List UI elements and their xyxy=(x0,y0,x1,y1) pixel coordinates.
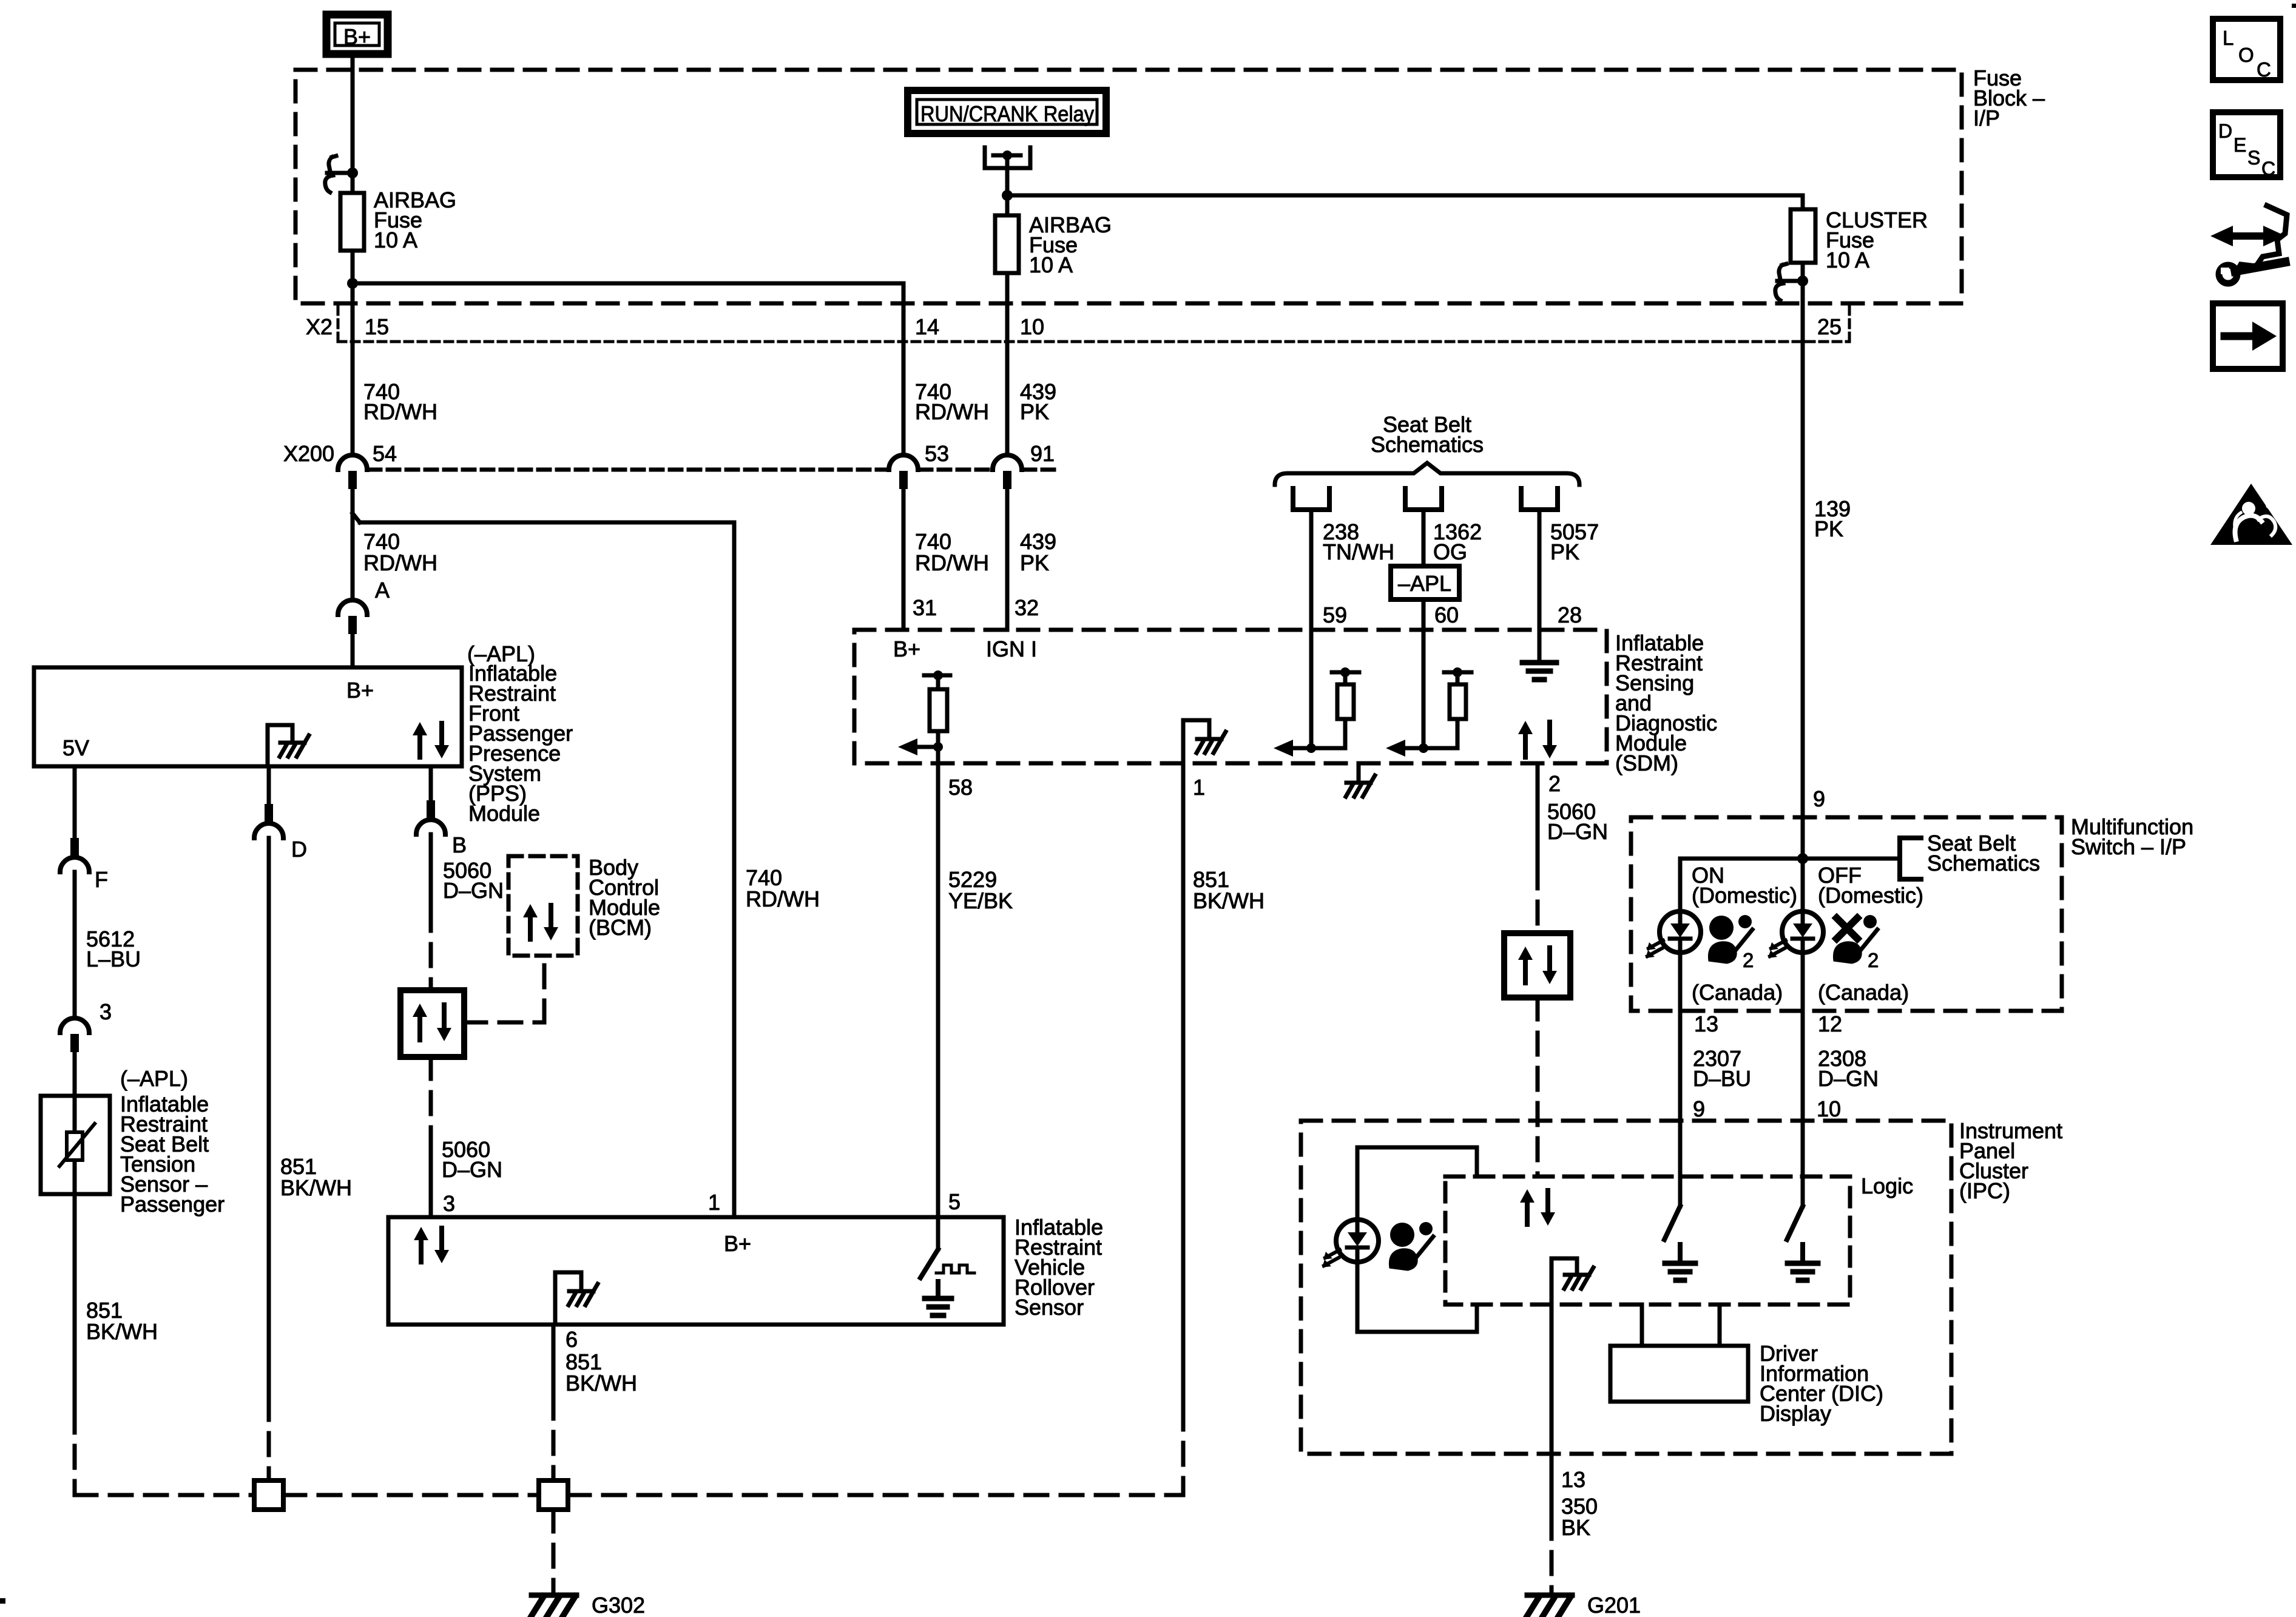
svg-text:B: B xyxy=(452,832,467,857)
svg-text:(–APL): (–APL) xyxy=(120,1066,188,1091)
svg-text:54: 54 xyxy=(373,441,397,466)
wire X200-53 to SDM pin 31 xyxy=(902,489,906,630)
wire PPS 5V to pin F xyxy=(73,766,77,838)
icon warning triangle xyxy=(2210,484,2292,545)
svg-text:1: 1 xyxy=(708,1190,720,1215)
ground IEC IPC 9 xyxy=(1678,1244,1683,1262)
svg-text:Module: Module xyxy=(468,801,540,826)
module multifunction switch dashed box xyxy=(1631,817,2062,1011)
connector X200 pin 91 xyxy=(993,455,1022,470)
wire junction to CLUSTER fuse xyxy=(1007,194,1803,198)
wire B+ to AIRBAG fuse xyxy=(351,58,355,193)
ground IEC rollover xyxy=(936,1281,940,1298)
power symbol B+ box xyxy=(326,15,388,54)
svg-text:BK/WH: BK/WH xyxy=(86,1319,158,1344)
switch rollover xyxy=(936,1217,940,1249)
wire splice to G302 xyxy=(552,1510,556,1593)
svg-text:5: 5 xyxy=(948,1189,961,1214)
svg-text:Display: Display xyxy=(1760,1401,1831,1426)
updown arrows BCM xyxy=(528,915,533,939)
svg-text:RD/WH: RD/WH xyxy=(363,399,437,424)
resistor source SDM 60 xyxy=(1444,670,1471,675)
connector X2 separator left xyxy=(337,306,340,340)
switch IPC pin 10 xyxy=(1787,1206,1803,1240)
wire 350 BK IPC-13 to G201 xyxy=(1550,1258,1554,1517)
icon DESC box xyxy=(2213,112,2280,177)
arrow SDM 58 left xyxy=(914,745,938,749)
wire ON LED to IPC pin 9 xyxy=(1678,953,1683,1206)
svg-text:B+: B+ xyxy=(346,678,374,703)
svg-text:L: L xyxy=(2223,27,2234,49)
svg-text:RD/WH: RD/WH xyxy=(915,399,989,424)
svg-text:Switch – I/P: Switch – I/P xyxy=(2071,834,2186,859)
ground IPC internal xyxy=(1551,1257,1577,1261)
node junction SDM 60 xyxy=(1419,743,1428,753)
ground IEC IPC 10 xyxy=(1800,1244,1805,1262)
svg-text:D: D xyxy=(2218,120,2232,142)
svg-text:BK/WH: BK/WH xyxy=(1193,888,1264,913)
svg-text:2: 2 xyxy=(1548,771,1561,796)
wire SDM 59 inside xyxy=(1309,630,1314,748)
strain gauge symbol xyxy=(67,1132,83,1160)
updown arrows logic xyxy=(1525,1200,1530,1224)
wire 5060 D-GN SDM-2 to IPC xyxy=(1536,763,1540,866)
connector X2 dashed line xyxy=(338,340,1849,343)
LED ON indicator xyxy=(1660,911,1701,953)
wire connector 3 to tension sensor xyxy=(73,1052,77,1096)
svg-text:58: 58 xyxy=(948,775,973,800)
fuse CLUSTER Fuse 10 A xyxy=(1791,209,1815,263)
svg-text:10 A: 10 A xyxy=(1029,252,1073,277)
wire 1362 OG lower xyxy=(1422,599,1426,630)
svg-text:Passenger: Passenger xyxy=(120,1192,225,1217)
splice square (G302) xyxy=(539,1480,568,1510)
wire X200-54 branch to rollover pin 1 xyxy=(351,489,355,513)
wire fuse to X200 pin 54 xyxy=(351,251,355,455)
updown arrow box (PPS B) xyxy=(400,990,464,1057)
wire relay to junction xyxy=(1005,155,1010,215)
wire 5060 D-GN (PPS B) xyxy=(429,834,433,909)
arrow SDM 60 left xyxy=(1402,746,1423,751)
svg-text:28: 28 xyxy=(1558,603,1582,627)
svg-text:C: C xyxy=(2257,58,2271,81)
svg-text:D–BU: D–BU xyxy=(1693,1066,1751,1091)
svg-text:S: S xyxy=(2247,147,2260,169)
svg-text:D–GN: D–GN xyxy=(442,1157,502,1182)
svg-text:60: 60 xyxy=(1434,603,1459,627)
squarewave symbol xyxy=(936,1265,974,1273)
wire middle fuse to X200 pin 91 xyxy=(1005,273,1010,455)
svg-text:B+: B+ xyxy=(893,636,920,661)
wire 851 BK/WH SDM-1 to ground bus xyxy=(1181,763,1186,1408)
svg-text:IGN I: IGN I xyxy=(986,636,1037,661)
connector A inline xyxy=(338,600,367,615)
ground PPS internal xyxy=(266,725,270,766)
svg-text:E: E xyxy=(2234,134,2246,156)
brace xyxy=(1275,463,1579,485)
svg-text:C: C xyxy=(2261,158,2275,180)
svg-text:(IPC): (IPC) xyxy=(1959,1178,2010,1203)
svg-text:X2: X2 xyxy=(306,314,333,339)
svg-text:10 A: 10 A xyxy=(374,228,417,252)
svg-text:D–GN: D–GN xyxy=(1547,819,1608,844)
wire 851 BK/WH rollover-6 to G302 xyxy=(552,1325,556,1397)
updown arrow box (5060 D-GN) xyxy=(1504,933,1570,998)
svg-text:10: 10 xyxy=(1817,1096,1841,1121)
svg-text:D–GN: D–GN xyxy=(443,878,504,903)
svg-text:13: 13 xyxy=(1561,1467,1585,1492)
svg-text:13: 13 xyxy=(1694,1011,1718,1036)
connector X200 pin 53 xyxy=(889,455,918,470)
connector B inline xyxy=(427,800,435,819)
fuse AIRBAG Fuse 10 A (left) xyxy=(340,193,364,251)
svg-text:31: 31 xyxy=(913,595,937,620)
page mark bottom-left xyxy=(0,1598,5,1604)
wire PPS gnd to pin D xyxy=(267,766,271,804)
svg-text:(Canada): (Canada) xyxy=(1818,980,1909,1005)
svg-text:PK: PK xyxy=(1550,539,1579,564)
LED IPC xyxy=(1356,1147,1360,1220)
svg-text:L–BU: L–BU xyxy=(86,947,141,971)
svg-text:3: 3 xyxy=(100,999,112,1024)
svg-text:PK: PK xyxy=(1814,516,1843,541)
wire 5612 L-BU xyxy=(73,872,77,1018)
svg-text:G302: G302 xyxy=(592,1593,645,1617)
ground IEC SDM pin 28 xyxy=(1522,660,1556,666)
svg-text:B+: B+ xyxy=(343,24,371,49)
relay pin bracket xyxy=(985,147,1030,168)
box -APL splice pack xyxy=(1391,566,1459,599)
svg-text:6: 6 xyxy=(566,1327,578,1352)
svg-text:YE/BK: YE/BK xyxy=(948,888,1013,913)
svg-text:Sensor: Sensor xyxy=(1015,1295,1084,1320)
module IPC dashed box xyxy=(1301,1121,1951,1454)
svg-text:G201: G201 xyxy=(1587,1593,1641,1617)
svg-text:(SDM): (SDM) xyxy=(1615,751,1678,775)
svg-text:RD/WH: RD/WH xyxy=(915,550,989,575)
connector bracket 5057 xyxy=(1521,488,1558,510)
sensor seat belt tension box xyxy=(41,1096,110,1194)
wire X200-54 to connector A xyxy=(351,513,355,600)
svg-text:Schematics: Schematics xyxy=(1371,432,1484,457)
connector D inline xyxy=(265,804,273,822)
svg-text:91: 91 xyxy=(1030,441,1055,466)
connector X200 pin 54 xyxy=(338,455,367,470)
resistor source SDM IGN I xyxy=(924,673,950,678)
airbag icon (IPC) xyxy=(1390,1223,1414,1247)
wire 5229 YE/BK SDM-58 to rollover 5 xyxy=(936,763,940,1217)
fuse block I/P dashed border xyxy=(295,70,1962,303)
icon LOC box xyxy=(2213,19,2280,80)
arrow SDM 59 left xyxy=(1289,746,1311,751)
breaker clip at AIRBAG fuse xyxy=(347,167,358,178)
icon diagnosis arrow wrench xyxy=(2237,206,2287,272)
svg-text:F: F xyxy=(95,867,108,892)
node junction SDM 58 xyxy=(933,742,943,752)
svg-text:Logic: Logic xyxy=(1861,1173,1913,1198)
connector X200 dashed line xyxy=(369,468,887,472)
wire SDM 60 inside xyxy=(1422,630,1426,748)
wire ground bus dashed xyxy=(75,1493,254,1497)
node junction SDM 59 xyxy=(1306,743,1316,753)
svg-text:B+: B+ xyxy=(724,1231,751,1256)
svg-text:12: 12 xyxy=(1818,1011,1842,1036)
svg-text:PK: PK xyxy=(1020,399,1049,424)
wire OFF LED to IPC pin 10 xyxy=(1801,953,1805,1206)
wire X200-91 to SDM pin 32 xyxy=(1005,489,1010,630)
ground G201 xyxy=(1527,1593,1572,1598)
svg-text:X200: X200 xyxy=(283,441,334,466)
node junction below relay xyxy=(1002,190,1013,201)
svg-text:RUN/CRANK Relay: RUN/CRANK Relay xyxy=(920,101,1094,126)
airbag icon (ON) xyxy=(1709,916,1734,940)
fuse AIRBAG Fuse 10 A (middle) xyxy=(995,215,1019,273)
svg-text:D–GN: D–GN xyxy=(1818,1066,1879,1091)
wire 5060 D-GN to rollover pin 3 xyxy=(429,1057,433,1130)
svg-text:15: 15 xyxy=(365,314,389,339)
module PPS box xyxy=(34,667,462,766)
node junction below AIRBAG fuse xyxy=(347,278,358,289)
LED OFF indicator xyxy=(1782,911,1823,953)
svg-text:OG: OG xyxy=(1433,539,1467,564)
updown arrows SDM pin 2 xyxy=(1523,732,1528,757)
svg-text:9: 9 xyxy=(1813,786,1825,811)
icon arrow box xyxy=(2213,303,2283,369)
logic dashed box xyxy=(1445,1176,1850,1305)
svg-text:3: 3 xyxy=(443,1191,455,1216)
svg-text:PK: PK xyxy=(1020,550,1049,575)
connector F inline xyxy=(70,838,79,856)
svg-text:O: O xyxy=(2238,44,2254,66)
wire arrow box to BCM xyxy=(464,1021,544,1025)
svg-text:BK/WH: BK/WH xyxy=(280,1175,352,1200)
wire PPS to pin B xyxy=(429,766,433,800)
module BCM dashed box xyxy=(508,856,578,956)
wire 851 BK/WH (PPS D) xyxy=(267,838,271,1398)
wire junction to ON LED xyxy=(1680,857,1803,861)
wire junction to seat belt bracket xyxy=(1803,857,1900,861)
wire 5057 PK xyxy=(1538,510,1542,659)
relay RUN/CRANK Relay box xyxy=(908,90,1106,133)
switch IPC pin 9 xyxy=(1664,1206,1680,1240)
ground SDM internal (pin 1) xyxy=(1181,720,1186,763)
wire 851 BK/WH (tension sensor) xyxy=(73,1194,77,1411)
svg-text:25: 25 xyxy=(1817,314,1842,339)
svg-text:(Canada): (Canada) xyxy=(1692,980,1783,1005)
wire junction to pin 14 drop xyxy=(353,282,903,286)
airbag icon (OFF) xyxy=(1837,918,1857,939)
svg-text:Schematics: Schematics xyxy=(1927,851,2040,876)
connector bracket 1362 xyxy=(1405,488,1442,510)
svg-text:5V: 5V xyxy=(62,735,89,760)
updown arrows rollover xyxy=(419,1238,424,1262)
wire connector A to PPS module xyxy=(351,634,355,667)
updown arrows PPS xyxy=(417,733,422,757)
connector 3 inline xyxy=(60,1018,89,1033)
wire 238 TN/WH xyxy=(1309,510,1314,630)
svg-text:RD/WH: RD/WH xyxy=(363,550,437,575)
ground hatch below SDM xyxy=(1357,763,1361,781)
page mark top-right xyxy=(2292,4,2296,8)
svg-text:RD/WH: RD/WH xyxy=(746,886,820,911)
connector X2 separator right xyxy=(1848,306,1851,340)
module SDM dashed box xyxy=(854,630,1607,763)
svg-text:D: D xyxy=(291,837,307,862)
resistor source SDM 59 xyxy=(1332,670,1359,675)
svg-text:A: A xyxy=(375,578,390,603)
splice square (851 left) xyxy=(254,1480,283,1510)
connector bracket 238 xyxy=(1293,488,1329,510)
svg-text:(Domestic): (Domestic) xyxy=(1818,883,1923,908)
svg-text:TN/WH: TN/WH xyxy=(1323,539,1394,564)
svg-text:I/P: I/P xyxy=(1973,106,2000,130)
breaker clip at CLUSTER fuse xyxy=(1801,263,1805,911)
ground G302 xyxy=(532,1593,576,1598)
wire 5060 D-GN below arrow box xyxy=(1536,998,1540,1176)
svg-text:14: 14 xyxy=(915,314,939,339)
svg-text:–APL: –APL xyxy=(1398,571,1451,596)
svg-text:10: 10 xyxy=(1020,314,1044,339)
svg-text:32: 32 xyxy=(1015,595,1039,620)
svg-text:53: 53 xyxy=(925,441,949,466)
svg-text:1: 1 xyxy=(1193,775,1205,800)
wire 1362 OG upper xyxy=(1422,510,1426,566)
svg-text:10 A: 10 A xyxy=(1826,248,1869,272)
module rollover sensor box xyxy=(388,1217,1004,1325)
svg-text:BK/WH: BK/WH xyxy=(566,1371,637,1396)
display DIC box xyxy=(1610,1346,1748,1402)
svg-text:2: 2 xyxy=(1743,949,1754,971)
ground rollover internal xyxy=(553,1272,558,1325)
svg-text:2: 2 xyxy=(1868,949,1879,971)
svg-text:(Domestic): (Domestic) xyxy=(1692,883,1797,908)
svg-text:59: 59 xyxy=(1323,603,1347,627)
svg-text:9: 9 xyxy=(1693,1096,1705,1121)
svg-text:(BCM): (BCM) xyxy=(589,915,652,940)
node junction 139 PK xyxy=(1797,853,1808,864)
bracket seat belt schematics xyxy=(1900,838,1921,879)
svg-text:BK: BK xyxy=(1561,1515,1590,1540)
